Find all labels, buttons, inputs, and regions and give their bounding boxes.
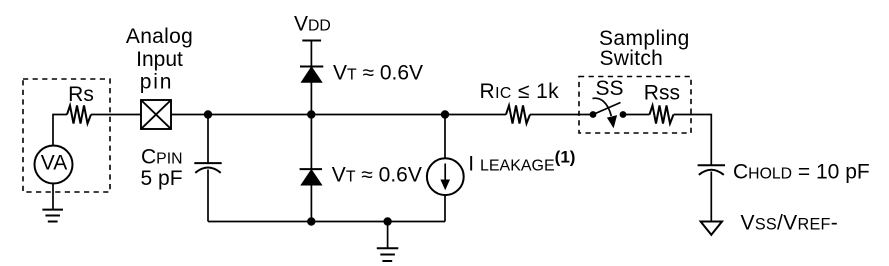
wire (switch to Rss) — [623, 114, 650, 116]
svg-text:VT ≈ 0.6V: VT ≈ 0.6V — [332, 164, 422, 187]
dashed source box — [23, 79, 110, 192]
wire (Rs to pin) — [91, 114, 141, 116]
ground (source) — [42, 210, 63, 222]
node (current source junction) — [441, 110, 449, 118]
svg-text:Switch: Switch — [600, 47, 664, 70]
svg-text:Rs: Rs — [68, 83, 94, 106]
diode D2 — [300, 168, 322, 170]
analog input pin symbol — [141, 100, 171, 129]
wire (current source to bottom rail) — [444, 195, 446, 222]
svg-text:VSS/VREF-: VSS/VREF- — [741, 211, 839, 234]
wire (Rss to CHOLD corner) — [674, 115, 712, 166]
capacitor CHOLD — [698, 164, 725, 166]
wire (corner to Rs, down to VA) — [53, 115, 67, 147]
wire (bottom rail) — [208, 221, 445, 223]
svg-text:Analog: Analog — [126, 25, 193, 48]
svg-text:VT ≈ 0.6V: VT ≈ 0.6V — [333, 61, 423, 84]
wire (pin to RIC, main rail) — [171, 114, 506, 116]
dashed sampling switch box — [579, 77, 691, 134]
svg-text:5 pF: 5 pF — [141, 167, 183, 190]
diode D1 — [300, 66, 323, 68]
VDD power bar — [302, 40, 321, 42]
wire (VDD to D1) — [310, 41, 312, 67]
node (bottom ground junction) — [383, 217, 391, 225]
switch SS contacts — [590, 111, 597, 118]
Vss/Vref- terminal triangle — [701, 222, 722, 235]
wire (RIC to switch) — [530, 114, 593, 116]
resistor Rss — [650, 106, 674, 124]
svg-text:Input: Input — [136, 48, 183, 71]
capacitor CPIN — [194, 162, 221, 164]
wire (D1 to main rail) — [310, 82, 312, 115]
current source I LEAKAGE — [427, 158, 464, 195]
svg-text:pin: pin — [140, 71, 173, 94]
wire (D2 to bottom rail) — [310, 185, 312, 222]
wire (main rail to current source) — [444, 115, 446, 159]
resistor RIC — [506, 106, 530, 124]
svg-text:VA: VA — [41, 152, 67, 175]
wire (main rail to D2) — [310, 115, 312, 170]
wire (junction to ground) — [387, 222, 389, 249]
resistor Rs — [67, 106, 91, 124]
node (diode branch junction) — [307, 110, 315, 118]
switch SS lever — [593, 103, 621, 115]
wire (VA to ground) — [52, 184, 54, 210]
node (CPIN junction) — [204, 110, 212, 118]
wire (CPIN to bottom rail) — [207, 170, 209, 222]
ground (center) — [377, 248, 399, 261]
node (D2 bottom junction) — [307, 217, 315, 225]
svg-text:RIC ≤ 1k: RIC ≤ 1k — [480, 80, 560, 103]
voltage source VA — [35, 146, 73, 184]
svg-text:SS: SS — [596, 77, 624, 100]
wire (node down to CPIN) — [207, 115, 209, 164]
wire (CHOLD to Vss) — [710, 172, 712, 222]
svg-text:Rss: Rss — [644, 82, 680, 105]
switch SS closing arrow — [593, 98, 612, 116]
